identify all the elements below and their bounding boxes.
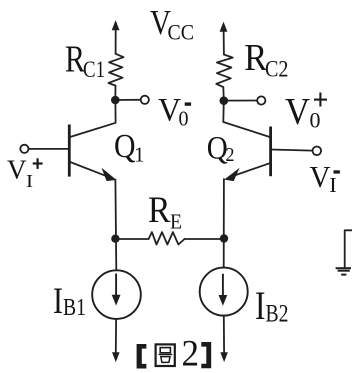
arrowhead IB2 bottom <box>221 353 227 361</box>
wire IB2 to bottom arrow <box>223 316 225 354</box>
node collector right <box>220 96 229 105</box>
svg-text:2: 2 <box>182 334 200 373</box>
wire VCC left rail top <box>115 28 117 54</box>
svg-text:0: 0 <box>310 108 321 133</box>
current source IB1 <box>92 270 141 319</box>
svg-text:I: I <box>255 283 266 328</box>
transistor Q1 base bar <box>68 125 71 177</box>
wire RE right lead <box>185 238 224 240</box>
svg-text:CC: CC <box>168 20 195 45</box>
arrowhead VCC right <box>220 23 227 32</box>
svg-text:2: 2 <box>226 144 235 166</box>
svg-text:1: 1 <box>134 142 145 166</box>
caption figure 2 <box>137 342 212 369</box>
svg-text:C2: C2 <box>265 56 289 81</box>
svg-text:V: V <box>310 159 332 194</box>
wire node to Vo- terminal <box>115 99 140 101</box>
svg-text:0: 0 <box>179 106 189 130</box>
wire Q2 emitter diagonal <box>233 163 270 176</box>
svg-text:V: V <box>285 91 310 133</box>
resistor RE <box>149 232 185 244</box>
wire Q2 base <box>271 150 313 151</box>
terminal Vo+ <box>257 96 265 104</box>
wire Q2 emitter down to IB2 <box>223 179 225 268</box>
wire Q1 emitter diagonal <box>70 162 107 176</box>
node emitter right <box>220 234 228 242</box>
wire VCC right rail top <box>223 30 225 55</box>
resistor RC2 <box>216 55 232 88</box>
svg-text:R: R <box>148 190 171 231</box>
glyph tu (picture) <box>156 344 175 366</box>
svg-text:I: I <box>329 173 337 197</box>
wire Q2 collector <box>223 101 269 137</box>
arrowhead IB1 bottom <box>113 353 119 361</box>
svg-text:I: I <box>26 171 33 191</box>
wire Q1 base <box>29 148 70 150</box>
terminal Vo- <box>141 96 149 104</box>
node emitter left <box>111 235 119 243</box>
ground <box>336 268 351 274</box>
terminal VI- <box>313 147 322 156</box>
right lenticular bracket <box>201 342 211 368</box>
resistor RC1 <box>108 54 123 86</box>
svg-text:R: R <box>244 37 267 79</box>
wire node to Vo+ terminal <box>224 100 257 102</box>
arrowhead Q2 emitter <box>225 170 238 181</box>
wire ground lead from right edge <box>345 230 352 267</box>
arrowhead VCC left <box>112 21 119 30</box>
svg-text:C1: C1 <box>83 57 105 82</box>
wire IB1 to bottom arrow <box>115 319 117 354</box>
current source IB2 <box>200 268 248 316</box>
svg-text:Q: Q <box>114 128 136 165</box>
wire Q1 emitter down to IB1 <box>114 180 117 271</box>
wire RC2 to node <box>222 87 225 101</box>
wire RE left lead <box>115 238 148 240</box>
left lenticular bracket <box>137 344 147 369</box>
svg-text:B2: B2 <box>266 301 289 328</box>
terminal VI+ <box>20 145 28 153</box>
svg-text:V: V <box>7 155 27 185</box>
node collector left <box>111 96 120 105</box>
svg-text:B1: B1 <box>63 295 86 321</box>
arrowhead Q1 emitter <box>103 169 116 180</box>
wire Q1 collector <box>70 100 116 137</box>
wire RC1 to node <box>114 86 116 100</box>
svg-text:E: E <box>170 209 182 233</box>
svg-text:I: I <box>53 281 63 322</box>
transistor Q2 base bar <box>269 127 272 177</box>
